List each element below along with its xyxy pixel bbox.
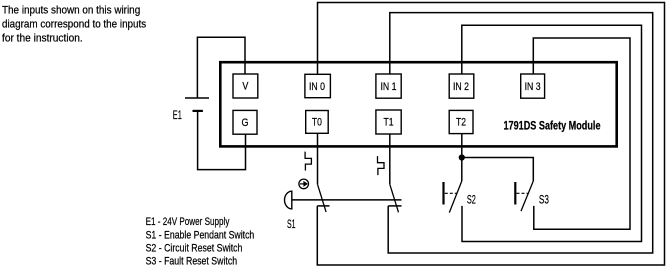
svg-text:S2 - Circuit Reset Switch: S2 - Circuit Reset Switch bbox=[146, 243, 243, 255]
svg-text:diagram correspond to the inpu: diagram correspond to the inputs bbox=[2, 19, 146, 31]
svg-text:IN 3: IN 3 bbox=[525, 81, 541, 93]
svg-text:G: G bbox=[242, 117, 249, 129]
svg-text:T0: T0 bbox=[312, 116, 322, 128]
svg-text:S1: S1 bbox=[287, 217, 296, 231]
svg-text:1791DS Safety Module: 1791DS Safety Module bbox=[504, 119, 601, 133]
svg-text:S2: S2 bbox=[467, 193, 476, 207]
svg-text:The inputs shown on this wirin: The inputs shown on this wiring bbox=[2, 5, 140, 17]
svg-text:IN 2: IN 2 bbox=[453, 81, 469, 93]
svg-text:S1 - Enable Pendant Switch: S1 - Enable Pendant Switch bbox=[146, 230, 255, 242]
svg-text:V: V bbox=[242, 81, 249, 93]
svg-text:S3 - Fault Reset Switch: S3 - Fault Reset Switch bbox=[146, 256, 238, 268]
svg-text:T1: T1 bbox=[384, 116, 394, 128]
svg-text:for the instruction.: for the instruction. bbox=[2, 33, 83, 45]
svg-text:S3: S3 bbox=[539, 193, 549, 207]
svg-text:IN 0: IN 0 bbox=[309, 81, 325, 93]
svg-text:E1 - 24V Power Supply: E1 - 24V Power Supply bbox=[146, 216, 230, 228]
svg-text:E1: E1 bbox=[173, 108, 182, 122]
svg-text:IN 1: IN 1 bbox=[381, 81, 397, 93]
svg-text:T2: T2 bbox=[456, 116, 466, 128]
